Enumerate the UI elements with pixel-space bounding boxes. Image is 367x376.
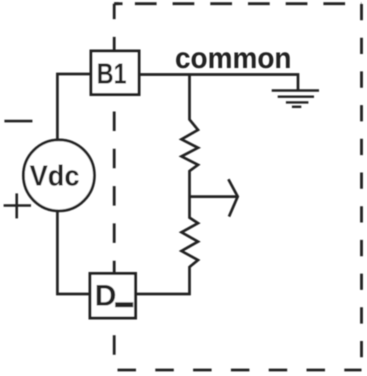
svg-text:Vdc: Vdc xyxy=(30,161,80,193)
svg-text:B1: B1 xyxy=(97,59,127,91)
svg-text:common: common xyxy=(175,42,292,75)
svg-text:D: D xyxy=(95,280,117,313)
